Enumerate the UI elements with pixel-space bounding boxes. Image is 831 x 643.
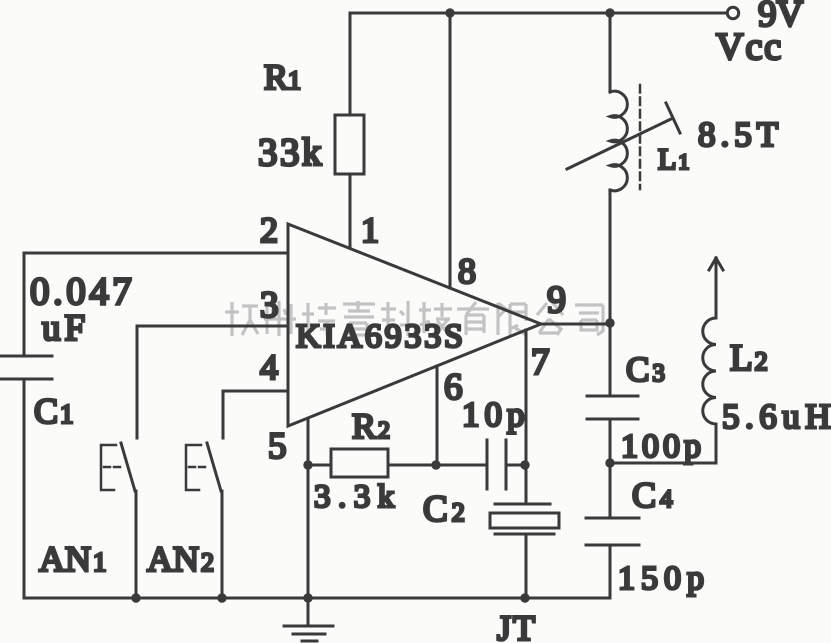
svg-text:4: 4 [260, 347, 278, 387]
wire L2 bottom [715, 424, 718, 463]
wire pin 5 drop [307, 420, 310, 465]
svg-text:100p: 100p [621, 428, 705, 465]
wire C4 to bottom rail [609, 545, 612, 598]
wire left branch upper [23, 253, 26, 356]
Vcc terminal circle [727, 7, 738, 18]
svg-text:C4: C4 [632, 475, 673, 515]
svg-text:JT: JT [497, 608, 537, 643]
svg-text:3: 3 [260, 285, 279, 326]
svg-text:uF: uF [42, 308, 89, 349]
op-amp U1 KIA6933S triangle [288, 224, 541, 426]
wire pin 6 riser [436, 366, 439, 465]
node ground junction [303, 593, 312, 602]
svg-text:9: 9 [547, 279, 566, 321]
node pin6 junction [431, 460, 440, 469]
wire R1 to pin 1 [349, 174, 352, 248]
wire C2 to pin7 node [506, 464, 525, 467]
node: pin8 branch junction on rail [445, 8, 454, 17]
ground [284, 598, 333, 641]
svg-text:KIA6933S: KIA6933S [296, 318, 466, 355]
L1 adjuster arrow [567, 103, 680, 169]
svg-text:C3: C3 [626, 350, 665, 389]
svg-text:150p: 150p [618, 560, 710, 597]
node AN1 bottom [131, 593, 140, 602]
wire C3 to node [609, 419, 612, 463]
node pin9/C3 junction [605, 318, 614, 327]
svg-text:10p: 10p [462, 395, 530, 434]
svg-text:R2: R2 [352, 406, 390, 446]
wire pin5 node to rail [307, 465, 310, 598]
svg-text:Vcc: Vcc [716, 26, 783, 68]
svg-text:L2: L2 [730, 338, 768, 379]
svg-text:3.3k: 3.3k [314, 479, 402, 515]
wire pin5 to R2 [308, 464, 331, 467]
wire pin9 to L1 column [541, 323, 610, 326]
svg-text:C1: C1 [34, 391, 74, 431]
node C3/C4/L2 junction [605, 458, 614, 467]
wire pin 7 riser [525, 330, 528, 504]
capacitor C2 10p [487, 440, 506, 489]
capacitor C3 [587, 396, 638, 419]
wire C4 top stub [609, 463, 612, 518]
svg-text:33k: 33k [258, 131, 324, 174]
watermark 杭州将睿科技有限公司 [225, 301, 603, 336]
pushbutton AN2 [186, 443, 222, 598]
resistor R1 [335, 115, 364, 174]
svg-text:0.047: 0.047 [30, 270, 135, 313]
svg-text:8: 8 [458, 251, 476, 291]
bottom ground rail wire [24, 597, 610, 600]
wire junction to L2 [610, 462, 716, 465]
wire R1 top [349, 13, 352, 115]
capacitor C1 [0, 356, 52, 379]
node pin7 junction [520, 460, 529, 469]
node AN2 bottom [217, 593, 226, 602]
svg-text:5.6uH: 5.6uH [722, 397, 831, 436]
crystal JT [490, 504, 559, 534]
svg-text:7: 7 [531, 342, 550, 383]
wire crystal to bottom rail [525, 534, 528, 598]
node pin5/R2 junction [303, 460, 312, 469]
node crystal bottom [520, 593, 529, 602]
pushbutton AN1 [101, 443, 136, 598]
svg-text:1: 1 [361, 210, 379, 250]
wire L1 bottom [609, 190, 612, 323]
inductor L1 [610, 91, 627, 190]
wire R2 to pin6 node [388, 464, 436, 467]
wire L1 top [609, 13, 612, 92]
wire pin 8 riser [449, 13, 452, 288]
wire pin 4 [223, 391, 288, 438]
antenna [709, 258, 723, 318]
wire pin 3 [137, 326, 288, 438]
wire left branch lower [23, 379, 26, 598]
L1 adjustable core dashed line [639, 85, 642, 189]
svg-text:C2: C2 [423, 489, 465, 530]
svg-text:AN1: AN1 [39, 539, 107, 579]
top power rail wire [350, 12, 727, 15]
wire pin 2 [24, 252, 288, 255]
inductor L2 [703, 318, 716, 424]
svg-text:6: 6 [444, 367, 463, 408]
node: L1 branch junction on rail [605, 8, 614, 17]
svg-text:L1: L1 [658, 143, 689, 176]
svg-text:8.5T: 8.5T [698, 115, 783, 154]
wire pin6 node to C2 [436, 464, 487, 467]
svg-text:AN2: AN2 [147, 539, 214, 579]
svg-text:5: 5 [268, 426, 287, 467]
wire C3 top stub [609, 323, 612, 396]
capacitor C4 [586, 518, 639, 545]
resistor R2 [331, 449, 388, 477]
svg-text:2: 2 [260, 210, 278, 250]
svg-text:R1: R1 [264, 57, 301, 97]
